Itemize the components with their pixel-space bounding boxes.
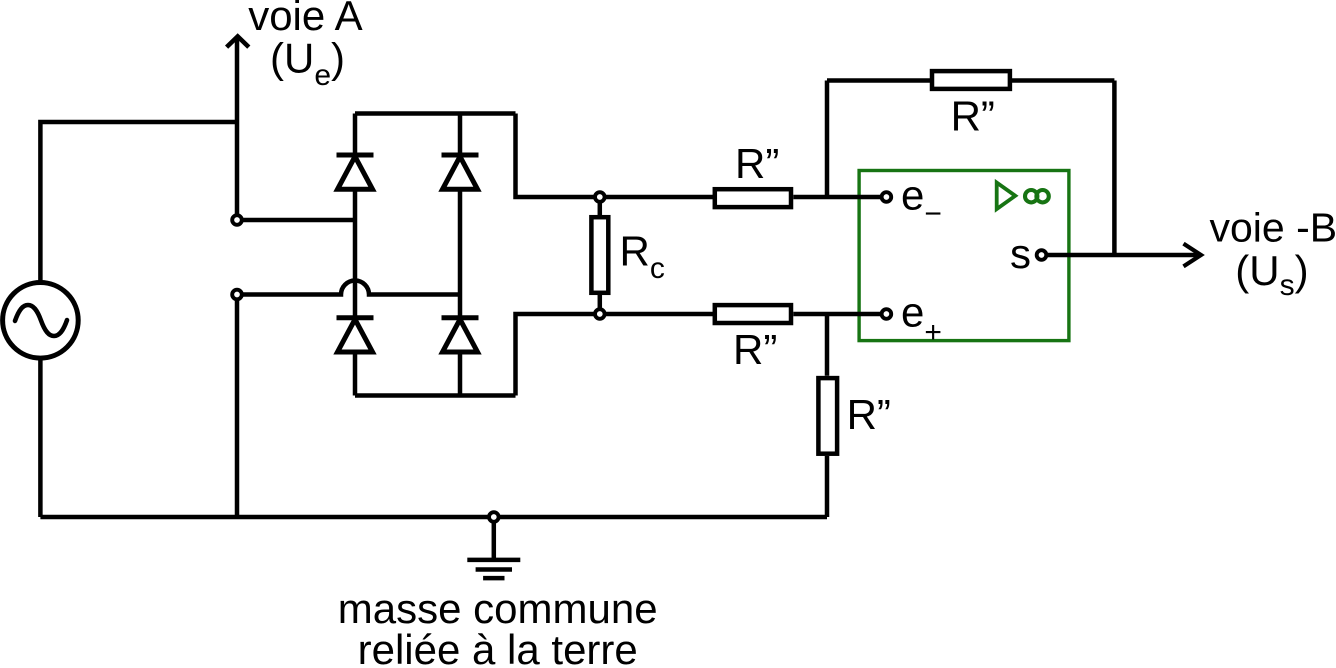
svg-text:R”: R” <box>733 326 777 373</box>
wire: source top to column <box>40 122 237 282</box>
op-amp gain symbol (triangle + infinity) <box>997 183 1049 210</box>
arrow head voie -B <box>1184 244 1202 267</box>
pin s terminal <box>1037 250 1047 260</box>
pin e+ terminal <box>882 309 892 319</box>
AC source sine wave <box>15 305 67 336</box>
resistor Rc <box>591 217 608 293</box>
wire: node2 down to ground rail <box>235 299 240 517</box>
node: ground junction <box>489 512 499 522</box>
wire: R'' to e- terminal <box>793 195 882 200</box>
wire: R'' to e+ terminal <box>793 312 882 317</box>
svg-text:(Us): (Us) <box>1235 247 1308 302</box>
wire: feedback vertical drop to e- wire <box>825 81 830 198</box>
wire: bridge - output to Rc bottom <box>516 314 596 396</box>
svg-text:R”: R” <box>735 140 779 187</box>
resistor R'' (e+ to ground) <box>818 378 837 454</box>
wire: vertical R'' down to ground rail <box>825 456 830 517</box>
diode D1 (upper left) <box>337 155 374 189</box>
resistor R'' (e+ input) <box>715 305 791 323</box>
wire: op-amp output s to voie -B arrow <box>1046 253 1197 258</box>
wire: bridge right branch <box>458 114 463 396</box>
wire: feedback down to output <box>1112 81 1117 256</box>
wire: Rc node stubs <box>598 202 603 310</box>
node: voie A tap (node 1) <box>232 215 242 225</box>
op-amp U1 (ideal op-amp green box) <box>859 171 1069 341</box>
resistor R'' (e- input) <box>715 189 791 207</box>
wire: bridge + output to Rc top <box>516 114 596 198</box>
ground symbol <box>467 522 520 579</box>
diode D3 (lower left) <box>337 318 374 352</box>
diode D2 (upper right) <box>442 155 479 189</box>
AC source G1 <box>3 283 79 359</box>
svg-text:masse commune: masse commune <box>338 585 658 632</box>
wire: bridge left branch <box>353 114 358 396</box>
svg-text:voie -B: voie -B <box>1210 205 1336 251</box>
svg-text:voie A: voie A <box>248 0 362 39</box>
wire: Rc bottom node to R'' (e+) <box>604 312 713 317</box>
arrow head voie A <box>227 36 249 47</box>
svg-text:R”: R” <box>847 391 891 438</box>
wire: Rc top node to R'' (e-) <box>604 195 713 200</box>
diode D4 (lower right) <box>442 318 479 352</box>
svg-text:R”: R” <box>951 92 995 139</box>
svg-text:reliée à la terre: reliée à la terre <box>358 626 638 668</box>
wire: e+ node down to vertical R'' <box>825 314 830 376</box>
wire: ground rail <box>40 515 827 520</box>
node: Rc top <box>595 192 605 202</box>
wire: bridge bottom rail <box>355 393 516 398</box>
wire: node2 to bridge right branch with hop over left branch <box>241 281 460 295</box>
wire: feedback top run <box>827 78 1114 83</box>
wire: voie A measurement arrow line <box>235 38 240 216</box>
node: Rc bottom <box>595 309 605 319</box>
wire: source bottom to rail <box>38 359 43 517</box>
pin e- terminal <box>882 192 892 202</box>
svg-text:s: s <box>1010 230 1031 277</box>
resistor R'' (feedback) <box>932 71 1010 89</box>
wire: bridge top rail <box>355 111 516 116</box>
node: lower tap (node 2) <box>232 290 242 300</box>
wire: node1 to bridge left branch <box>241 218 355 223</box>
